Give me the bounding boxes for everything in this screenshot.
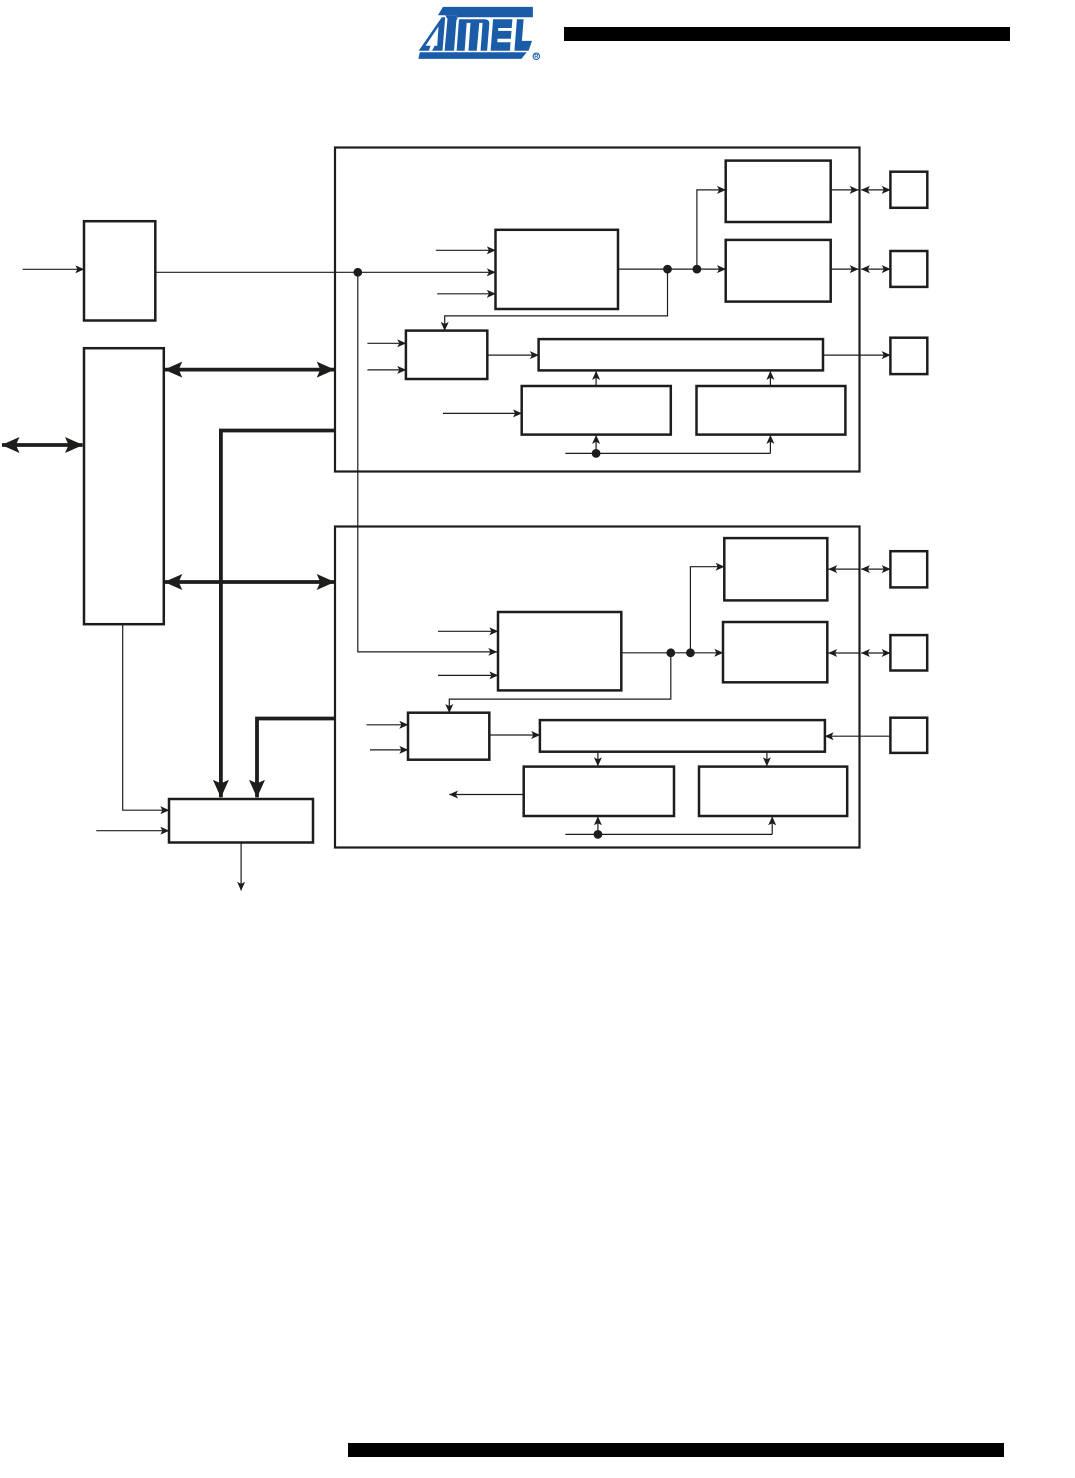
svg-text:R: R xyxy=(534,54,538,60)
